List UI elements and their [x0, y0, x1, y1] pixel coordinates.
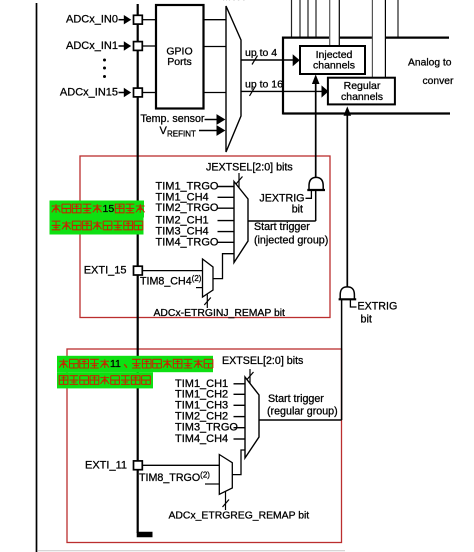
green annotation 1 text: waibu zhongduan xian 15 ke zuowei [52, 204, 61, 213]
bus slash (up to 16) [250, 87, 256, 96]
injected channels box [300, 46, 365, 74]
AND gate EXTRIG [340, 287, 354, 299]
bus channel: injected data registers (left border) [329, 0, 331, 46]
svg-text:TIM1_CH3: TIM1_CH3 [175, 399, 228, 411]
wire: TIM8_TRGO to remap mux [205, 483, 220, 485]
wire: TIM2_TRGO into injected mux [218, 207, 235, 209]
svg-text:TIM3_TRGO: TIM3_TRGO [175, 422, 238, 434]
svg-text:ADCx_ETRGREG_REMAP bit: ADCx_ETRGREG_REMAP bit [169, 511, 310, 522]
wire: GPIO to mux row 2 [204, 46, 227, 48]
mux: injected trigger selector [234, 182, 248, 263]
svg-text:11: 11 [110, 358, 121, 370]
wire: TIM4_CH4 into regular mux [234, 438, 247, 440]
wire: mux2 output (start trigger regular) [259, 419, 342, 421]
bus slash (up to 4) [252, 56, 258, 65]
wire: ADCx_IN1 arrow into pad [119, 45, 126, 47]
green annotation 1: line 2 highlight bar [50, 218, 144, 235]
green annotation 2: line 1 highlight bar [57, 356, 213, 372]
mux: ETRGINJ remap selector [203, 259, 214, 297]
wire: bus bottom stub [137, 532, 153, 538]
svg-text:bit: bit [292, 203, 303, 215]
wire: TIM3_CH4 into injected mux [218, 231, 235, 233]
wire: TIM4_TRGO into injected mux [218, 241, 235, 243]
wire: EXTRIG bit connector [350, 300, 356, 307]
svg-text:channels: channels [313, 60, 355, 72]
wire: JEXTRIG bit connector [306, 191, 312, 199]
wire: status flag line 1 [291, 0, 293, 37]
wire: Temp. sensor arrow into mux [205, 119, 219, 121]
svg-text:JEXTSEL[2:0] bits: JEXTSEL[2:0] bits [206, 161, 293, 173]
green annotation 2 text line 2: guize zu de waibu chufaqi [59, 376, 68, 385]
wire: TIM1_CH3 into regular mux [234, 404, 247, 406]
wire: ADCx_IN1 pad to GPIO box [142, 45, 156, 47]
svg-text:TIM4_TRGO: TIM4_TRGO [156, 236, 219, 248]
svg-text:Ports: Ports [167, 56, 192, 68]
wire: TIM1_CH4 into injected mux [218, 196, 235, 198]
wire: ADCx_IN15 pad to GPIO box [142, 92, 156, 94]
wire: GPIO to mux row 3 [204, 92, 227, 94]
mux: ETRGREG remap selector [219, 455, 232, 495]
wire: EXTI_11 to remap mux [142, 464, 219, 466]
wire: JEXTRIG gate input from start trigger [315, 190, 317, 221]
svg-text:ADCx_IN15: ADCx_IN15 [60, 87, 118, 99]
wire: ETRGINJ_REMAP control [206, 295, 208, 309]
wire: ADCx_IN15 arrow into pad [119, 92, 126, 94]
ADC block left edge [282, 37, 284, 115]
red annotation box 1 (injected trigger group) [80, 156, 330, 318]
svg-text:(injected group): (injected group) [254, 235, 328, 247]
wire: ETRGREG_REMAP control [225, 492, 227, 511]
ellipsis between ADCx_IN1 and ADCx_IN15 [103, 59, 106, 62]
mux: regular trigger selector [245, 377, 259, 458]
wire: up to 16 (mux to regular channels) [241, 90, 322, 92]
wire: GPIO to mux row 1 [204, 19, 227, 21]
mux: analog input selector [226, 6, 241, 152]
wire: remap mux output to injected mux input 7 [213, 254, 235, 279]
wire: TIM3_TRGO into regular mux [234, 427, 247, 429]
AND gate JEXTRIG [309, 177, 323, 190]
wire: ADCx_IN0 arrow into pad [119, 19, 126, 21]
wire: TIM8_CH4 to remap mux [196, 287, 203, 289]
wire: status flag line 2 [299, 0, 301, 37]
svg-text:TIM8_TRGO(2): TIM8_TRGO(2) [139, 470, 210, 484]
wire: line to DMA (right of buses) [397, 0, 399, 37]
svg-text:conver: conver [423, 76, 454, 87]
wire: up to 4 (mux to injected channels) [241, 59, 295, 61]
svg-text:ADCx_IN0: ADCx_IN0 [66, 14, 118, 26]
ADC block top edge (segmented around register buses) [283, 36, 329, 38]
svg-text:Start trigger: Start trigger [254, 221, 310, 233]
wire: TIM2_CH1 into injected mux [218, 220, 235, 222]
svg-text:REFINT: REFINT [167, 130, 196, 139]
red annotation box 2 (regular trigger group) [67, 349, 342, 543]
wire: remap mux 2 output to regular mux input 7 [232, 450, 245, 475]
GPIO Ports box [156, 5, 204, 109]
wire: EXTRIG gate output up to regular channels [346, 111, 348, 287]
svg-text:ADCx-ETRGINJ_REMAP bit: ADCx-ETRGINJ_REMAP bit [154, 308, 286, 319]
regular channels box [328, 78, 395, 105]
green annotation 1: line 1 highlight bar [50, 201, 145, 218]
svg-text:bit: bit [361, 314, 372, 326]
wire: EXTSEL select line [249, 369, 251, 384]
wire: TIM2_CH2 into regular mux [234, 416, 247, 418]
svg-text:Analog to: Analog to [408, 58, 452, 69]
bus channel: regular data register (right border) [384, 0, 386, 77]
svg-text:EXTI_11: EXTI_11 [85, 459, 127, 471]
green annotation 2: line 2 highlight bar [57, 372, 153, 388]
node: ADCx_IN0 pad square [134, 15, 143, 24]
node: EXTI_15 square on bus [134, 266, 143, 275]
node: EXTI_11 square on bus [134, 461, 143, 470]
svg-text:EXTI_15: EXTI_15 [84, 264, 127, 276]
svg-text:MUX: MUX [222, 0, 245, 3]
svg-text:EXTRIG: EXTRIG [358, 301, 398, 313]
svg-text:(regular group): (regular group) [267, 406, 338, 418]
wire: EXTRIG gate input from regular start trigger [341, 299, 343, 420]
bus channel: regular data register (left border) [371, 0, 373, 77]
wire: EXTI_15 to remap mux [142, 270, 203, 272]
green annotation 2 text: waibu zhongduan xian 11, dingshiqi buhuo ke zuowei [59, 359, 68, 368]
svg-text:up to 4: up to 4 [245, 47, 277, 59]
wire: VREFINT arrow into mux [199, 130, 218, 132]
svg-text:EXTSEL[2:0] bits: EXTSEL[2:0] bits [222, 355, 303, 367]
node: ADCx_IN1 pad square [134, 42, 143, 51]
wire: ADCx_IN0 pad to GPIO box [142, 19, 156, 21]
wire: page left vertical rule [36, 3, 38, 552]
svg-text:Temp. sensor: Temp. sensor [140, 113, 205, 125]
svg-text:15: 15 [103, 203, 115, 215]
node: ADCx_IN15 pad square [134, 88, 143, 97]
wire: TIM1_TRGO into injected mux [218, 186, 235, 188]
wire: JEXTSEL select line [238, 173, 240, 188]
wire: status flag line 4 [315, 0, 317, 37]
node: ADC input bus vertical line [137, 4, 139, 533]
svg-text:TIM4_CH4: TIM4_CH4 [175, 433, 228, 445]
svg-text:Start trigger: Start trigger [268, 393, 324, 405]
wire: TIM1_CH2 into regular mux [234, 393, 247, 395]
green annotation 1 text line 2: zhuru zu de waibu chufaqi [52, 221, 61, 230]
bus channel: injected data registers (right border) [338, 0, 340, 46]
faint page rule at bottom [38, 550, 345, 552]
wire: JEXTRIG gate output up to injected channels [315, 80, 317, 178]
wire: mux1 output (start trigger injected) [248, 220, 316, 222]
svg-text:up to 16: up to 16 [245, 78, 283, 90]
svg-text:channels: channels [341, 91, 383, 103]
ADC block bottom edge [283, 112, 450, 114]
svg-text:ADCx_IN1: ADCx_IN1 [66, 40, 118, 52]
svg-text:TIM2_TRGO: TIM2_TRGO [156, 202, 219, 214]
wire: TIM1_CH1 into regular mux [234, 383, 247, 385]
wire: status flag line 3 [307, 0, 309, 37]
